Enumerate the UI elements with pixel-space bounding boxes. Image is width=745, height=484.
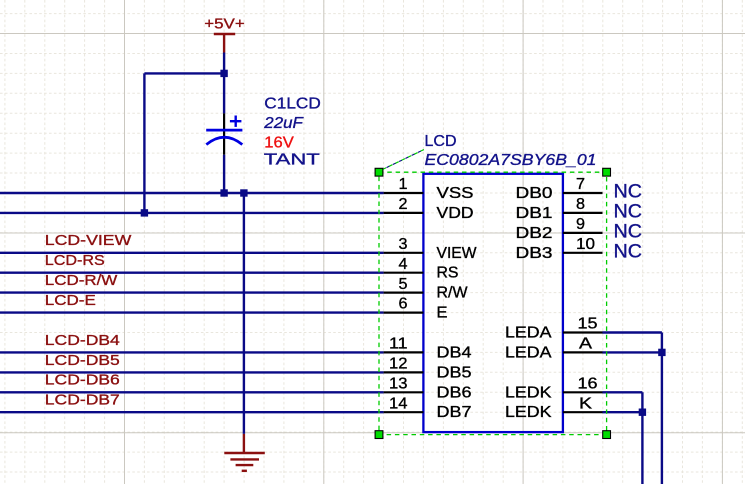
svg-text:4: 4	[399, 256, 408, 273]
wire	[0, 192, 384, 194]
pin 7 DB0	[516, 176, 603, 202]
junction	[240, 189, 247, 196]
wire	[0, 371, 384, 373]
wire	[0, 212, 384, 214]
junction	[639, 409, 646, 416]
svg-text:LCD-DB5: LCD-DB5	[45, 352, 120, 369]
svg-text:LEDA: LEDA	[505, 325, 552, 342]
wire	[661, 333, 663, 484]
svg-text:DB7: DB7	[437, 404, 472, 421]
wire	[0, 272, 384, 274]
svg-text:16: 16	[578, 375, 598, 392]
pin 4 RS	[384, 256, 459, 282]
selection handle	[375, 431, 383, 439]
wire	[144, 72, 224, 74]
svg-text:NC: NC	[614, 240, 643, 262]
svg-text:DB2: DB2	[516, 225, 553, 242]
svg-text:DB4: DB4	[437, 344, 472, 361]
svg-text:DB5: DB5	[437, 364, 472, 381]
wire	[603, 351, 662, 353]
ground	[224, 434, 264, 471]
pin 2 VDD	[384, 196, 474, 222]
svg-text:10: 10	[576, 236, 595, 253]
pin K LEDK	[505, 395, 603, 421]
svg-text:11: 11	[389, 336, 408, 353]
svg-text:1: 1	[399, 176, 408, 193]
svg-text:7: 7	[576, 176, 585, 193]
pin A LEDA	[505, 336, 603, 362]
svg-text:K: K	[579, 395, 592, 412]
svg-text:DB3: DB3	[516, 245, 553, 262]
power +5V	[204, 16, 245, 53]
svg-text:LCD-RS: LCD-RS	[45, 252, 105, 269]
svg-text:13: 13	[389, 375, 408, 392]
pin 13 DB6	[384, 375, 472, 401]
svg-text:LCD-DB4: LCD-DB4	[45, 332, 120, 349]
wire	[641, 392, 643, 484]
svg-text:DB0: DB0	[516, 185, 553, 202]
svg-text:+5V+: +5V+	[204, 16, 245, 33]
wire	[0, 311, 384, 313]
svg-text:LCD-R/W: LCD-R/W	[45, 272, 118, 289]
wire	[0, 391, 384, 393]
svg-text:C1LCD: C1LCD	[264, 96, 321, 113]
selection handle	[375, 168, 383, 176]
svg-text:3: 3	[399, 236, 408, 253]
wire	[603, 391, 643, 393]
svg-text:VSS: VSS	[437, 185, 474, 202]
pin 1 VSS	[384, 176, 474, 202]
svg-text:NC: NC	[614, 201, 643, 223]
wire	[0, 291, 384, 293]
capacitor C1LCD	[206, 96, 321, 169]
junction	[141, 209, 148, 216]
svg-text:6: 6	[399, 296, 408, 313]
svg-text:DB1: DB1	[516, 205, 553, 222]
pin 15 LEDA	[505, 316, 603, 342]
pin 3 VIEW	[384, 236, 478, 262]
pin 16 LEDK	[505, 375, 603, 401]
selection handle	[603, 431, 611, 439]
pin 11 DB4	[384, 336, 472, 362]
selection handle	[603, 168, 611, 176]
svg-text:EC0802A7SBY6B_01: EC0802A7SBY6B_01	[425, 152, 597, 169]
svg-text:A: A	[579, 336, 592, 353]
svg-text:LEDK: LEDK	[505, 404, 552, 421]
IC LCD EC0802A7SBY6B_01 box	[423, 174, 563, 432]
wire	[0, 411, 384, 413]
junction	[220, 70, 227, 77]
svg-text:16V: 16V	[264, 134, 294, 151]
pin 12 DB5	[384, 356, 472, 382]
pin 5 R/W	[384, 276, 469, 302]
wire	[603, 331, 662, 333]
svg-text:LCD-DB7: LCD-DB7	[45, 392, 120, 409]
wire	[223, 53, 225, 114]
svg-text:NC: NC	[614, 181, 643, 203]
pin 9 DB2	[516, 216, 603, 242]
svg-text:LCD: LCD	[425, 133, 457, 150]
svg-text:2: 2	[399, 196, 408, 213]
svg-text:E: E	[437, 305, 448, 322]
svg-text:LCD-VIEW: LCD-VIEW	[45, 232, 132, 249]
svg-text:VIEW: VIEW	[437, 245, 478, 262]
pin 6 E	[384, 296, 448, 322]
svg-text:VDD: VDD	[437, 205, 474, 222]
wire	[223, 155, 225, 193]
svg-text:12: 12	[389, 356, 408, 373]
pin 10 DB3	[516, 236, 603, 262]
wire	[143, 73, 145, 213]
svg-text:8: 8	[576, 196, 585, 213]
wire	[0, 351, 384, 353]
junction	[658, 349, 665, 356]
wire	[243, 193, 245, 434]
svg-text:14: 14	[389, 395, 408, 412]
svg-text:22uF: 22uF	[263, 115, 304, 132]
svg-text:LCD-DB6: LCD-DB6	[45, 372, 120, 389]
svg-text:TANT: TANT	[264, 152, 320, 169]
svg-text:LCD-E: LCD-E	[45, 292, 96, 309]
wire	[0, 252, 384, 254]
pin 14 DB7	[384, 395, 472, 421]
svg-text:9: 9	[576, 216, 585, 233]
svg-text:DB6: DB6	[437, 384, 472, 401]
svg-text:15: 15	[578, 316, 598, 333]
svg-text:NC: NC	[614, 221, 643, 243]
junction	[220, 189, 227, 196]
svg-text:RS: RS	[437, 265, 459, 282]
selection rectangle	[379, 172, 607, 434]
svg-text:LEDK: LEDK	[505, 384, 552, 401]
svg-text:LEDA: LEDA	[505, 344, 552, 361]
svg-text:R/W: R/W	[437, 285, 469, 302]
pin 8 DB1	[516, 196, 603, 222]
designator attachment line	[383, 150, 425, 170]
svg-text:5: 5	[399, 276, 408, 293]
wire	[603, 411, 643, 413]
